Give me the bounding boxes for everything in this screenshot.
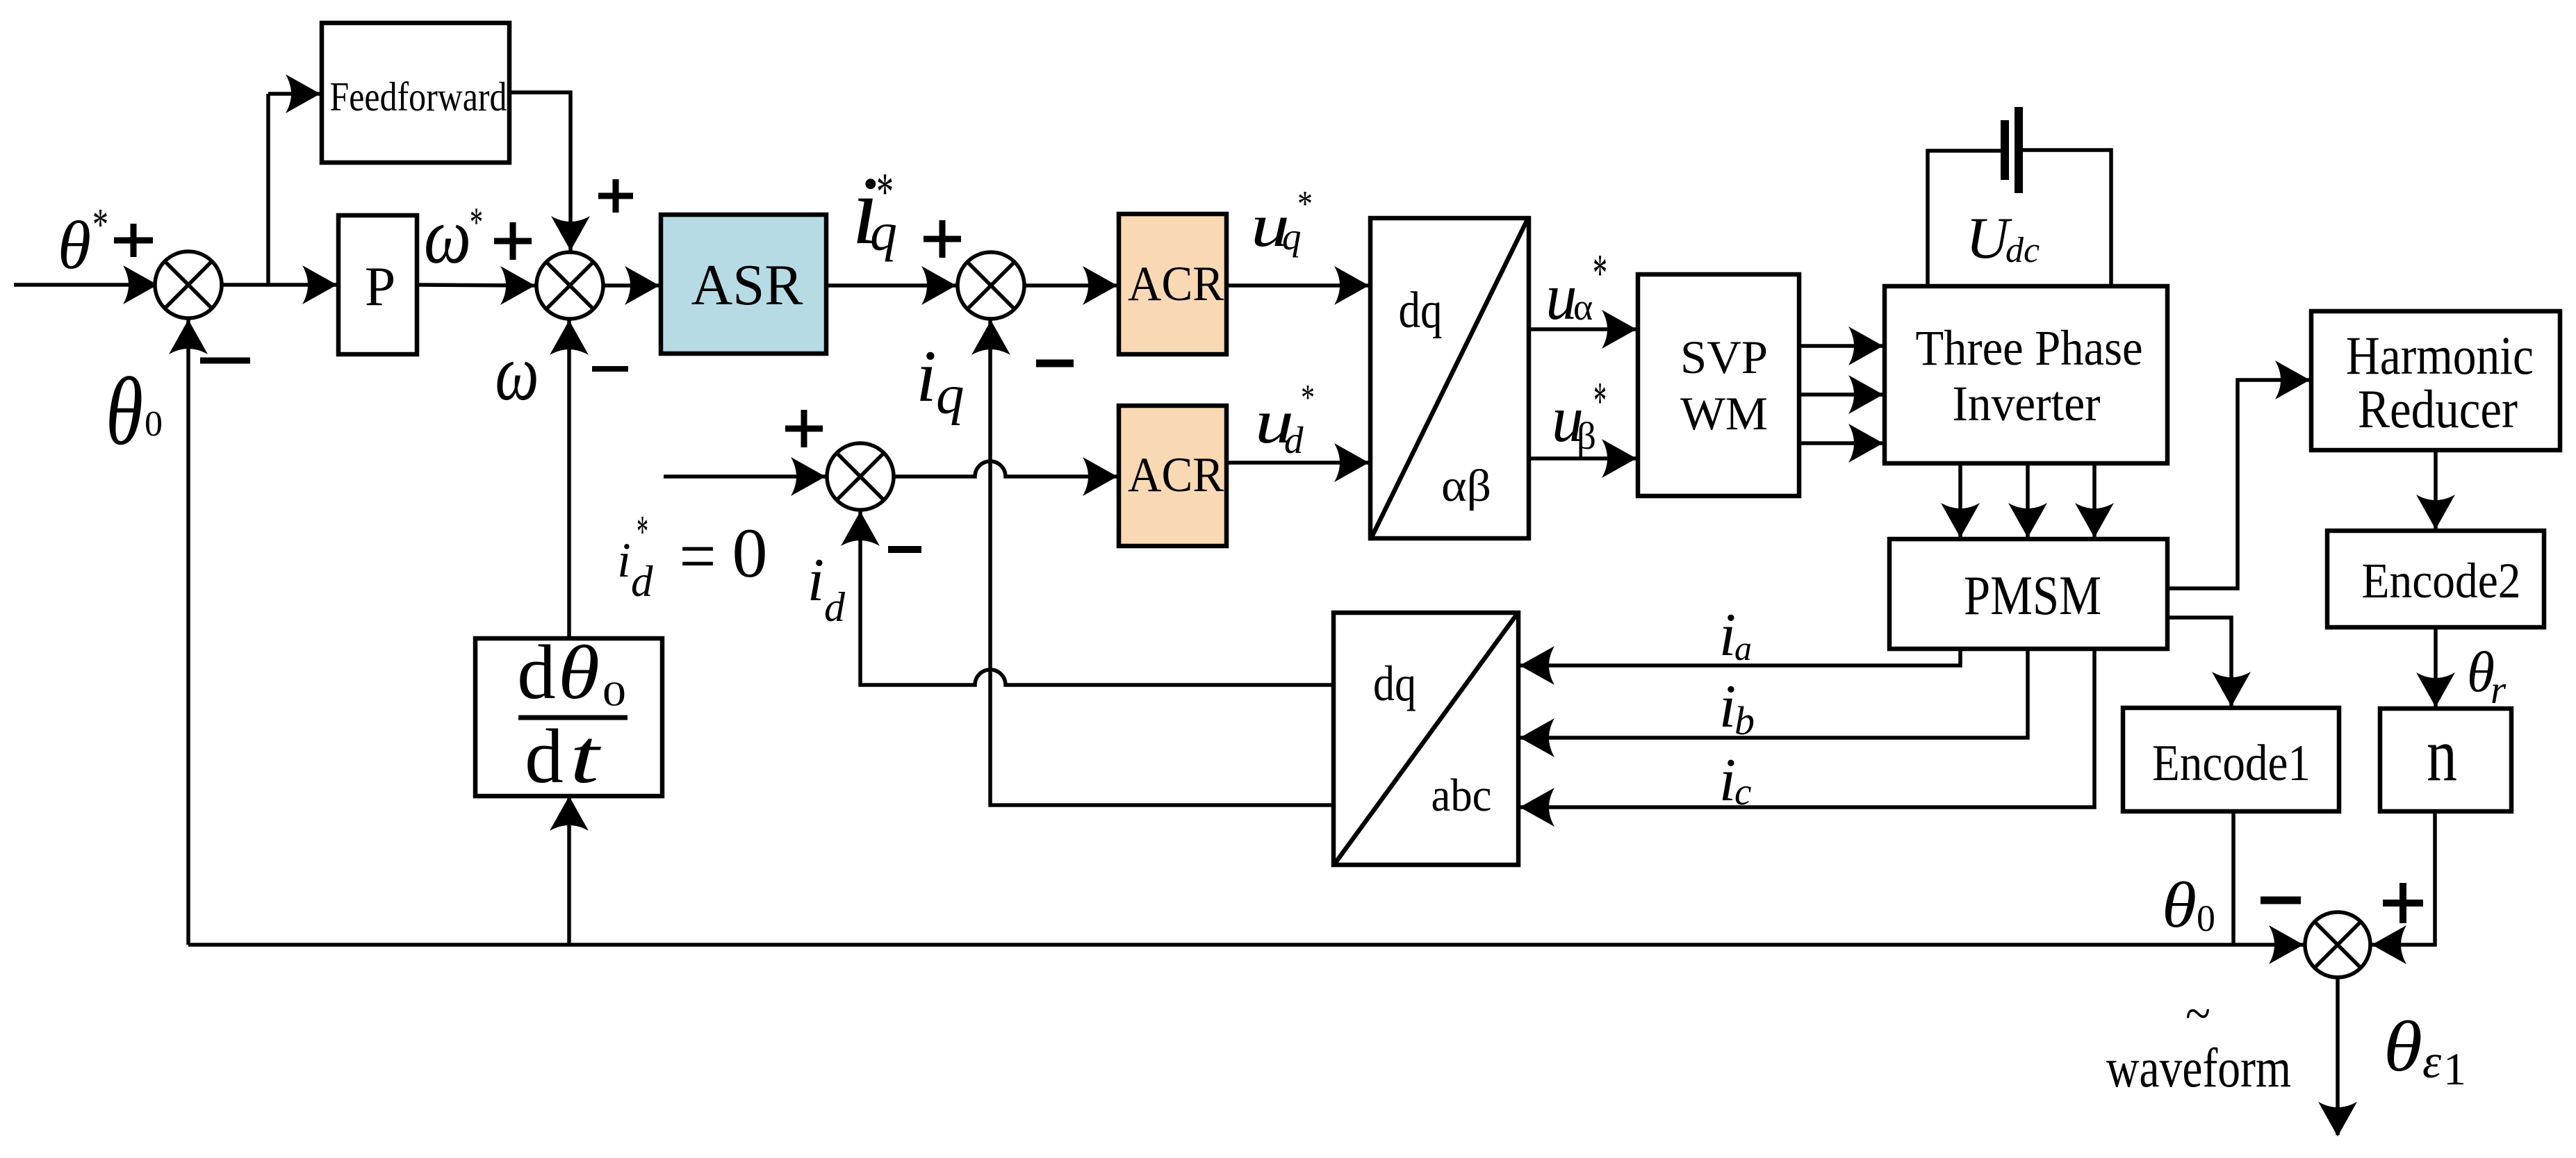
svg-text:θ: θ	[2384, 1007, 2422, 1086]
svg-text:SVP: SVP	[1680, 331, 1768, 383]
svg-text:dq: dq	[1399, 282, 1443, 339]
svg-text:1: 1	[2443, 1044, 2466, 1095]
svg-text:ACR: ACR	[1128, 448, 1224, 502]
svg-text:ω: ω	[424, 192, 471, 280]
svg-text:~: ~	[2185, 985, 2210, 1043]
svg-text:q: q	[936, 363, 965, 426]
svg-text:α: α	[1573, 286, 1593, 328]
svg-text:αβ: αβ	[1441, 461, 1491, 511]
svg-text:θ: θ	[558, 630, 600, 715]
svg-text:i: i	[1719, 747, 1736, 814]
svg-text:0: 0	[145, 404, 163, 444]
svg-text:r: r	[2491, 668, 2507, 712]
svg-text:*: *	[876, 162, 894, 222]
svg-text:d: d	[517, 630, 556, 716]
svg-text:abc: abc	[1431, 770, 1492, 821]
svg-text:*: *	[470, 199, 483, 245]
svg-text:c: c	[1734, 770, 1751, 813]
svg-text:*: *	[1297, 184, 1313, 224]
svg-text:0: 0	[732, 514, 768, 593]
svg-text:WM: WM	[1680, 387, 1768, 440]
svg-text:ε: ε	[2422, 1035, 2442, 1088]
svg-text:PMSM: PMSM	[1964, 565, 2101, 627]
svg-text:Reducer: Reducer	[2358, 379, 2518, 439]
svg-text:d: d	[824, 584, 846, 630]
svg-text:i: i	[617, 533, 631, 588]
svg-text:b: b	[1734, 698, 1755, 743]
svg-text:Encode2: Encode2	[2362, 553, 2521, 609]
svg-text:Harmonic: Harmonic	[2346, 325, 2534, 386]
svg-text:*: *	[1593, 371, 1607, 431]
svg-text:0: 0	[602, 674, 626, 713]
svg-text:θ: θ	[2162, 870, 2197, 941]
svg-text:0: 0	[2197, 898, 2215, 939]
svg-text:a: a	[1734, 629, 1752, 668]
svg-text:n: n	[2427, 712, 2457, 797]
svg-text:Feedforward: Feedforward	[330, 74, 507, 119]
svg-text:d: d	[525, 714, 564, 800]
svg-text:u: u	[1546, 260, 1577, 333]
svg-text:*: *	[92, 199, 108, 250]
svg-text:waveform: waveform	[2106, 1038, 2291, 1099]
svg-text:P: P	[365, 256, 396, 317]
svg-text:dq: dq	[1373, 656, 1416, 711]
svg-text:i: i	[1719, 602, 1736, 669]
svg-text:t: t	[570, 714, 602, 800]
svg-text:*: *	[637, 506, 648, 557]
svg-text:d: d	[1284, 419, 1304, 461]
svg-text:dc: dc	[2005, 231, 2040, 270]
svg-text:θ: θ	[106, 358, 143, 465]
svg-text:i: i	[807, 547, 824, 614]
svg-text:ACR: ACR	[1128, 257, 1224, 311]
svg-text:ASR: ASR	[691, 253, 803, 317]
svg-text:Inverter: Inverter	[1953, 376, 2101, 431]
svg-text:i: i	[916, 336, 936, 417]
svg-text:Encode1: Encode1	[2152, 735, 2311, 792]
svg-text:*: *	[1301, 378, 1315, 418]
svg-text:=: =	[680, 515, 716, 597]
svg-text:d: d	[631, 557, 653, 606]
svg-text:Three Phase: Three Phase	[1916, 320, 2143, 376]
svg-text:i: i	[1719, 673, 1736, 741]
svg-text:*: *	[1593, 243, 1607, 303]
svg-text:ω: ω	[495, 329, 539, 417]
svg-text:θ: θ	[58, 208, 91, 283]
